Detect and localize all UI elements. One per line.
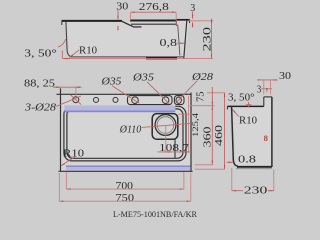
svg-text:Ø35: Ø35 (100, 77, 121, 88)
dim 3 upper arrow line (192, 11, 194, 18)
svg-text:30: 30 (279, 71, 291, 82)
dim 230 bottom line left (232, 190, 243, 192)
deck right end drop (189, 20, 191, 23)
blue band 1 dark edge (64, 110, 175, 112)
dim 30 lower arrow (117, 26, 119, 30)
bottom line (71, 56, 185, 58)
svg-text:R10: R10 (239, 115, 257, 126)
bottom line (237, 166, 272, 168)
ext 750 right (190, 173, 192, 202)
svg-text:3-Ø28: 3-Ø28 (24, 103, 56, 114)
108,7 left arrow (166, 151, 170, 153)
plus cross marker (246, 102, 252, 108)
108,7 right extension (188, 96, 190, 153)
3,50 leader vertical (61, 51, 63, 59)
ramp from rim to ledge (122, 21, 133, 26)
right wall (271, 97, 273, 167)
dim 750 line (59, 200, 191, 202)
svg-text:L-ME75-1001NB/FA/KR: L-ME75-1001NB/FA/KR (113, 210, 198, 219)
deck slab underside (131, 23, 176, 25)
svg-text:750: 750 (116, 193, 135, 204)
hole 5 (faucet 35b) (162, 97, 169, 104)
0,8 leader arrow (177, 42, 184, 44)
blue band 2 light (66, 167, 190, 170)
dim 75 line (211, 87, 213, 106)
dim 125,4 extension (178, 113, 194, 115)
svg-text:8: 8 (264, 133, 268, 143)
dim 3 right line (261, 88, 272, 90)
blue band 2 dark edge (66, 165, 190, 167)
Ø110 leader (142, 123, 190, 127)
rim top line (62, 20, 123, 22)
plan view interior fill (61, 95, 191, 171)
dim 230 extensions (232, 168, 274, 191)
dim 88,25 line (53, 86, 81, 88)
230 top extension tick (188, 20, 214, 22)
faucet pocket 2 (174, 96, 184, 105)
dim 230 bottom line right (268, 190, 274, 192)
plan outer bottom edge (59, 170, 193, 172)
bottom thick pad segment (146, 57, 177, 59)
svg-text:75: 75 (196, 92, 207, 103)
svg-text:276,8: 276,8 (139, 2, 169, 13)
svg-text:230: 230 (244, 186, 267, 197)
R10 plan leader (61, 157, 75, 166)
deck right piece top (176, 19, 189, 21)
75 bottom extension (190, 105, 215, 107)
left wall slant with R10 (232, 107, 238, 167)
hole 2 (94, 97, 99, 102)
plan outer right edge (190, 93, 192, 172)
ext 700 left (65, 172, 67, 189)
R10 leader (69, 50, 79, 58)
top side view interior fill (62, 20, 190, 58)
svg-text:3, 50°: 3, 50° (228, 93, 255, 104)
svg-text:3, 50°: 3, 50° (24, 49, 57, 60)
right inner wall (178, 25, 180, 56)
Ø35 leader 1 (112, 86, 139, 104)
dim 360 bottom extension (195, 164, 213, 166)
baseline red line (62, 58, 213, 60)
svg-text:460: 460 (213, 124, 225, 146)
dim 88,25 right arrow (76, 86, 82, 88)
right side view interior fill (228, 97, 272, 166)
108,7 center extension (165, 125, 167, 153)
right outer wall (184, 20, 187, 58)
108,7 right arrow (184, 151, 188, 153)
svg-text:Ø35: Ø35 (132, 73, 154, 84)
svg-text:Ø28: Ø28 (191, 72, 214, 83)
dim 460 line (224, 93, 226, 169)
rim left lip (61, 22, 63, 26)
plan outer top edge (57, 93, 192, 95)
divider below drain pocket (174, 139, 176, 158)
drain pocket rounded rect (152, 114, 178, 140)
step vertical (263, 97, 265, 107)
3-Ø28 cross diagonal (71, 95, 82, 105)
svg-text:700: 700 (116, 181, 134, 192)
Ø28 leader (176, 81, 197, 103)
bowl inner rounded rect (67, 109, 183, 158)
dim 88,25 left arrow (55, 86, 61, 88)
hole 6 (soap 28) (176, 97, 181, 103)
ledge line (133, 26, 142, 28)
svg-text:3: 3 (257, 84, 262, 95)
drain circle (155, 115, 176, 136)
dim 360 line (211, 106, 213, 165)
0.8 right leader (227, 161, 233, 163)
bowl outer rounded rect (64, 106, 186, 161)
blue band 1 light (64, 105, 175, 110)
dim 276,8 left extension (130, 13, 132, 21)
svg-text:125,4: 125,4 (191, 113, 200, 137)
drain inner circle (157, 117, 174, 134)
dim 276,8 line (130, 11, 176, 13)
108,7 dim line (158, 151, 191, 153)
3,50 angle arc (58, 39, 66, 47)
svg-text:0,8: 0,8 (160, 38, 178, 49)
svg-text:0.8: 0.8 (238, 155, 256, 166)
svg-text:230: 230 (201, 27, 213, 52)
R10 right leader (233, 109, 239, 116)
dim 30 right arrow b (272, 79, 274, 81)
top extension for 75/460 (207, 92, 225, 94)
hole 4 (faucet 35) (132, 97, 139, 104)
3-Ø28 leader diagonal (56, 96, 81, 106)
deck step vertical (175, 20, 177, 27)
dim 276,8 right extension (175, 13, 177, 26)
faucet pocket 1 (128, 96, 173, 105)
dim 88,25 extension to hole1 (75, 88, 77, 97)
dim 700 line (66, 188, 184, 190)
dim 30 right arrows (260, 79, 262, 81)
hole 1 (73, 97, 79, 103)
baseline left arrow (63, 58, 70, 60)
ext 700 right (183, 172, 185, 189)
dim 3 lower arrow line (192, 22, 194, 27)
dim 30 extensions (264, 80, 271, 94)
dim 30 right line (261, 79, 278, 81)
left wall with R10 corner (66, 21, 72, 56)
hole 3 (113, 97, 118, 102)
svg-text:88, 25: 88, 25 (24, 79, 55, 90)
Ø35 leader 2 (147, 82, 169, 104)
ext 750 left (58, 173, 60, 202)
svg-text:360: 360 (201, 126, 213, 148)
rim left lip (226, 106, 228, 109)
rim line (227, 105, 263, 107)
dim 3 right arrow (266, 89, 268, 92)
plan outer left edge (60, 88, 62, 171)
svg-text:R10: R10 (79, 46, 97, 57)
dim 30 line (117, 9, 119, 20)
step top (264, 96, 272, 98)
bottom outer faint line (236, 168, 272, 170)
dim 230 vertical line (211, 19, 213, 59)
deck slab top (130, 20, 176, 22)
svg-text:Ø110: Ø110 (119, 124, 142, 135)
dim 460 bottom extension (195, 168, 225, 170)
